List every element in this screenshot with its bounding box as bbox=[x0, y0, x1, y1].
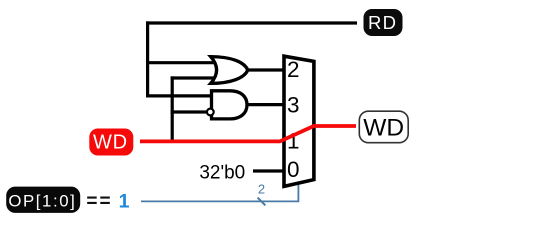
svg-text:1: 1 bbox=[119, 191, 130, 213]
wire: OR gate bottom input bbox=[171, 76, 217, 79]
wire: OR output to mux input 2 bbox=[246, 68, 286, 71]
svg-text:RD: RD bbox=[368, 12, 397, 33]
wire: RD net vertical drop (line 1) bbox=[146, 21, 149, 97]
or gate bbox=[211, 57, 248, 84]
wire: AND gate top input bbox=[146, 94, 213, 97]
wire: AND gate inverted input bbox=[171, 110, 207, 113]
svg-text:2: 2 bbox=[287, 57, 300, 82]
wire: AND output to mux input 3 bbox=[245, 103, 286, 106]
wire: RD net top horizontal bbox=[146, 21, 357, 24]
and gate bbox=[212, 91, 248, 119]
mux trapezoid bbox=[284, 56, 314, 186]
node box OP[1:0] bbox=[6, 187, 80, 213]
node box RD bbox=[364, 9, 403, 36]
svg-text:3: 3 bbox=[287, 92, 300, 117]
wire: 32'b0 to mux input 0 bbox=[253, 169, 285, 172]
inverting bubble on AND input bbox=[207, 109, 214, 116]
svg-text:WD: WD bbox=[363, 115, 404, 142]
svg-text:32'b0: 32'b0 bbox=[199, 162, 245, 183]
node box WD (source, red) bbox=[89, 129, 133, 156]
svg-text:2: 2 bbox=[258, 181, 265, 196]
wire: WD net vertical (line 2) bbox=[171, 76, 174, 141]
svg-text:WD: WD bbox=[93, 132, 128, 154]
svg-text:OP[1:0]: OP[1:0] bbox=[8, 192, 76, 211]
wire: OR gate top input bbox=[146, 61, 217, 64]
svg-text:0: 0 bbox=[287, 157, 300, 182]
svg-text:==: == bbox=[86, 191, 112, 212]
red wire: WD through mux input 1 to output bbox=[140, 126, 356, 141]
blue select wire bbox=[141, 183, 298, 201]
node box WD (output) bbox=[359, 111, 408, 143]
bus width slash bbox=[258, 198, 266, 206]
